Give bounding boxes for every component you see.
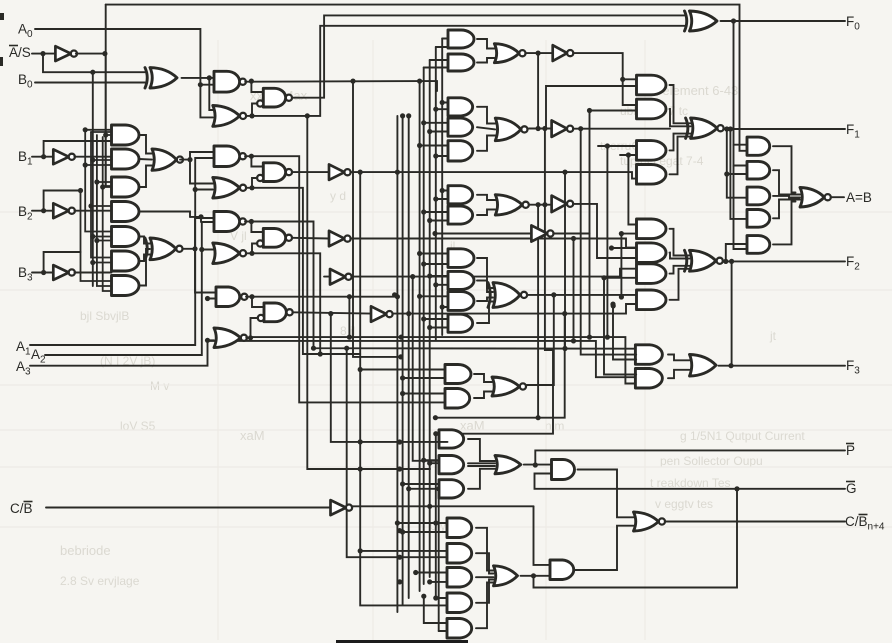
wire stair4 down to F3b (604, 278, 636, 375)
wire nor3 long (252, 253, 320, 354)
svg-text:loV S5: loV S5 (120, 419, 156, 433)
wire AB5 b (734, 166, 748, 250)
wire B1 inv out (75, 156, 112, 158)
label F0 output (846, 14, 860, 33)
nand gate bit0 upper (214, 71, 246, 92)
wire CF to xnor (477, 258, 493, 288)
wire R2 bot input (590, 110, 637, 112)
node bus tap nor1b (406, 113, 411, 118)
buffer inverter F1 path (552, 120, 574, 136)
node feeder j4 (397, 466, 402, 471)
node x360 dot 551 (358, 548, 363, 553)
node xnor-L2 branch (192, 246, 197, 251)
nand gate bit3 upper (216, 287, 247, 307)
wire nor1 branch down (307, 116, 430, 469)
wire central vertical bus bundle (397, 39, 442, 632)
inverter top F0 path (553, 45, 574, 61)
inverter after combine2 (329, 164, 351, 180)
node F2-F3 join (729, 259, 734, 264)
wire cl and6 to xnor (139, 255, 150, 262)
node x360 top tap (358, 170, 363, 175)
and gate CB5 (447, 619, 472, 639)
wire F1 out (724, 128, 845, 130)
wire AB3 out2 (773, 196, 800, 198)
node bus tap nor1 (400, 113, 405, 118)
nand gate bit1 upper (214, 146, 246, 167)
wire xor0 out to NAND1 (209, 77, 214, 79)
wire A3 branch2 (208, 298, 217, 300)
wire G-bar out (737, 488, 845, 490)
svg-text:nim: nim (545, 419, 564, 433)
label F3 output (846, 358, 860, 377)
node nor1 out (249, 113, 254, 118)
and gate CB2 (447, 544, 472, 564)
svg-text:C/B: C/B (10, 501, 33, 516)
svg-text:2.8 Sv ervjlage: 2.8 Sv ervjlage (60, 574, 140, 588)
wire C or out (521, 575, 551, 577)
node feeder x359 a (358, 466, 363, 471)
and gate AB2 (747, 161, 770, 179)
wire c4 long out (393, 304, 637, 314)
node stair5 tap (610, 302, 615, 307)
wire P or out (524, 464, 552, 466)
nor gate bit0 lower (213, 106, 246, 127)
wire F0 down (734, 21, 748, 145)
wire combine3 out (292, 237, 329, 240)
label A2 input (31, 347, 46, 366)
inverter B2 (53, 203, 75, 218)
node invc tap (432, 231, 437, 236)
node bus dot b (397, 579, 402, 584)
node nor3 out (249, 251, 254, 256)
wire buf3 out staircase (574, 204, 637, 258)
wire B3 branch (44, 252, 81, 273)
wire combine1 out to F0 xor (292, 15, 685, 97)
wire CA to nor (477, 107, 495, 124)
wire left bus g stub2 (93, 236, 112, 238)
wire left bus g stub (93, 159, 112, 161)
wire nand1 out (245, 81, 437, 91)
label F1 output (846, 122, 860, 141)
and gate B-cluster 2 (112, 149, 139, 169)
node nand4 L1 join (395, 294, 400, 299)
xor gate bit0 (B0 xor S) (145, 68, 177, 88)
wire S-bar vertical drop left (105, 5, 107, 186)
node x613 dot (611, 303, 616, 308)
wire R7 fork (670, 266, 690, 274)
scan artifact bottom edge (336, 640, 468, 643)
wire G1 bottom in (535, 474, 738, 489)
wire stair3 (581, 129, 637, 355)
wire A2 branch2 (202, 249, 214, 251)
node buf2 j (578, 126, 583, 131)
node left bus d (94, 179, 99, 184)
label B3 input (18, 265, 33, 284)
wire left bus b top (85, 129, 111, 131)
wire B2 branch (44, 191, 81, 211)
wire bus top bend2 (436, 46, 448, 48)
wire c3 long out (351, 239, 637, 248)
nor gate A=B output (800, 188, 831, 208)
wire invc in (435, 233, 531, 235)
node nor2 d1 (536, 126, 541, 131)
nand gate bit0 combine with input bubble (257, 88, 292, 107)
node stair2 join (571, 338, 576, 343)
svg-text:A=B: A=B (846, 190, 872, 205)
wire AB2 out (773, 170, 800, 194)
node F3 j (728, 363, 733, 368)
nand gate bit3 combine (258, 303, 293, 322)
wire A/S vertical to B cluster (92, 72, 94, 286)
wire nand4 long (252, 296, 397, 298)
xnor gate combine lower (488, 283, 527, 308)
wire left bus f stub (106, 134, 112, 136)
node stair1 tap (562, 170, 567, 175)
node nor3 x360 join (318, 351, 323, 356)
nor gate carry output (634, 512, 666, 531)
node bus dot d (397, 439, 402, 444)
wire A3 long to F3b (208, 341, 637, 377)
wire bus stubs to center AND column with junctions (417, 100, 448, 330)
wire A0 (35, 29, 213, 117)
inverter B1 (53, 149, 75, 164)
wire P3 to or (468, 469, 495, 489)
wire feeder x353 (353, 81, 401, 357)
node nor4 dot a (347, 335, 352, 340)
nor gate F3x combine (492, 377, 526, 396)
node drop1 stub (724, 171, 729, 176)
node C or junction (531, 573, 536, 578)
node stair6 tap (605, 143, 610, 148)
svg-text:bjl SbvjlB: bjl SbvjlB (80, 309, 129, 323)
node riser tap (433, 415, 438, 420)
node bus dot a (397, 555, 402, 560)
wire inv1 stub R1 (623, 78, 637, 80)
node stair6 join (605, 335, 610, 340)
node nand4 out (249, 294, 254, 299)
node B2 junction (41, 208, 46, 213)
wire stair1 (564, 172, 566, 348)
inverter C/B-bar (331, 500, 353, 515)
nand gate bit2 upper (214, 212, 246, 232)
node left bus g2 (90, 234, 95, 239)
wire F1 drop1 (727, 129, 747, 198)
node feeder j1 (397, 528, 402, 533)
wire F3b fork (668, 370, 690, 378)
wire buf2 out (574, 128, 671, 130)
wire nor-L1 down (190, 160, 213, 184)
svg-text:y d: y d (330, 189, 346, 203)
label B2 input (18, 204, 33, 223)
wire B2 (32, 210, 53, 212)
wire C or down (534, 489, 738, 588)
wire R3 fork (670, 134, 691, 151)
wire left bus d stub (97, 181, 112, 183)
node A2 branch (199, 247, 204, 252)
wire F0 drop stub (734, 145, 748, 166)
wire nor1 out (246, 26, 684, 116)
wire left bus d (97, 135, 112, 286)
wire nor4 out (246, 318, 257, 338)
wire R7 bot input (604, 277, 637, 279)
label B0 input (18, 72, 33, 91)
label A1 input (16, 339, 31, 358)
wire c2 long out (351, 172, 637, 179)
node left bus d2 (94, 238, 99, 243)
and gate C-I (448, 314, 473, 332)
svg-text:pen Sollector Oupu: pen Sollector Oupu (660, 454, 763, 468)
wire left bus g stub3 (93, 262, 112, 264)
and gate T2 (448, 54, 474, 71)
node x538 riser join (536, 415, 541, 420)
wire nand3 long (251, 222, 636, 349)
wire stair6 (606, 146, 608, 337)
and gate B-cluster 1 (112, 125, 139, 145)
and gate G1 (552, 460, 575, 480)
wire left bus f (105, 54, 107, 186)
node B3 junction (41, 270, 46, 275)
node A1 branch (193, 187, 198, 192)
node xnor out j (619, 294, 624, 299)
node x353 top tap (350, 79, 355, 84)
node riser top (562, 311, 567, 316)
wire cl and1 to nor (139, 135, 152, 154)
wire stair8 (620, 234, 622, 295)
wire F3xa top long (360, 369, 447, 371)
wire F3a fork (668, 355, 690, 361)
label A=B output (846, 190, 872, 205)
wire CI to xnor (477, 302, 493, 324)
wire R5 bot input (621, 233, 636, 235)
node nand1 out (249, 79, 254, 84)
wire CB5 to or (476, 583, 494, 629)
node bus dot c (421, 594, 426, 599)
wire A0 to NAND1 stub (200, 84, 214, 86)
wire F2 up drop (726, 244, 747, 261)
node nor2 out (249, 185, 254, 190)
nor gate bit3 lower (214, 328, 247, 348)
wire B3 (32, 272, 53, 274)
label A-bar/S input (9, 45, 31, 60)
node left bus f1 (103, 132, 108, 137)
nor gate B-cluster upper combine (152, 149, 183, 170)
node R7 tap (601, 275, 606, 280)
wire xnor out (528, 294, 637, 296)
wire nor2 out (246, 178, 256, 188)
and gate C-E (448, 206, 473, 224)
wire nor2 long (252, 188, 360, 354)
inverter A/S (55, 46, 77, 61)
wire carry out (665, 521, 845, 523)
wire R6 top input (612, 247, 637, 249)
node L8 lower head (436, 486, 441, 491)
svg-text:jt: jt (769, 329, 777, 343)
wire A-bar/S in (32, 53, 55, 55)
and gate F3b (635, 369, 662, 389)
wire B2 inv out (75, 210, 112, 212)
wire nand1 to combine (251, 81, 263, 92)
and gate T1 (448, 30, 474, 48)
and gate C-D (448, 186, 473, 204)
wire A=B out (831, 196, 844, 198)
node L7 lower head (433, 431, 438, 436)
and gate P2 (439, 456, 464, 474)
node nand2 out (249, 154, 254, 159)
node CB1 L7 dot (433, 520, 438, 525)
node F0 junction (731, 18, 736, 23)
wire CB1 L7 stub (436, 522, 448, 524)
inverter third left column (330, 269, 352, 285)
svg-text:xaM: xaM (460, 418, 485, 433)
node bus tap c2 (395, 170, 400, 175)
wire x538 down (537, 205, 539, 418)
and gate F3x-a (445, 365, 471, 384)
wire left bus a (81, 191, 112, 282)
wire P1 in2 long (331, 314, 448, 442)
and gate B-cluster 6 (112, 251, 139, 271)
wire AB5 out (773, 202, 796, 245)
node left bus b1 (83, 162, 88, 167)
and gate F3a (635, 345, 662, 365)
wire CB3 stub (416, 572, 448, 574)
wire CB4 to or (476, 580, 494, 603)
and gate R4 (637, 165, 667, 185)
wire CE to nor3 (477, 210, 495, 216)
wire AB4 out (773, 200, 800, 219)
node P3 upper dot (400, 481, 405, 486)
label F2 output (846, 254, 860, 273)
and gate C-B (448, 118, 473, 136)
wire x365 branch (348, 297, 350, 337)
wire T2 to or (477, 58, 494, 63)
wire bus stubs to bottom AND clusters with junctions (395, 375, 448, 600)
wire F3xb to nor (474, 392, 492, 399)
wire x538 vertical (537, 53, 539, 128)
wire cl and4 out (139, 212, 190, 217)
node nor3 d2 (542, 202, 547, 207)
wire stair2 (573, 239, 575, 341)
wire P1 to or (468, 439, 495, 461)
wire F3xa to nor (474, 374, 492, 382)
wire combine4 out (293, 312, 371, 313)
wire left bus d stub2 (97, 240, 112, 242)
and gate B-cluster 4 (112, 202, 139, 222)
and gate AB4 (747, 210, 770, 228)
wire B1 (32, 156, 53, 158)
wire CD to nor3 (477, 195, 495, 200)
node x365 tap (347, 294, 352, 299)
node CB3 stub dot (413, 570, 418, 575)
wire stair9 (628, 155, 636, 225)
node G junction (734, 486, 739, 491)
wire R8 fork (670, 269, 690, 300)
wire x360 CB2 branch (360, 550, 447, 552)
and gate C-A (448, 98, 473, 116)
or gate P combine (495, 456, 521, 474)
node nor4 dot b (399, 335, 404, 340)
wire x346 feeder (347, 348, 448, 557)
node nor2 d2 (542, 126, 547, 131)
svg-text:M v: M v (150, 379, 169, 393)
node F2 j1 (723, 259, 728, 264)
wire P-bar out (535, 450, 845, 465)
wire F3x out (527, 295, 554, 385)
node nand1 bus junction (417, 79, 422, 84)
and gate C-H (448, 292, 474, 311)
node x353 end (398, 354, 403, 359)
node stair9 tap (626, 152, 631, 157)
wire S-bar top distribution (106, 5, 747, 151)
wire left bus b (85, 130, 111, 232)
and gate R8 (637, 290, 667, 310)
label C/B-bar input (10, 501, 33, 516)
node P junction (533, 462, 538, 467)
wire F0 out (721, 20, 846, 22)
wire cl and7 to xnor (139, 249, 150, 286)
node C/B bus junction (427, 504, 432, 509)
wire F3 down (731, 261, 733, 365)
wire bus top bend4 (424, 67, 448, 69)
svg-text:g 1/5N1 Qutput Current: g 1/5N1 Qutput Current (680, 429, 805, 443)
node left bus e (100, 184, 105, 189)
buffer inverter F2 path (552, 196, 574, 213)
wire T1 to or (477, 39, 494, 49)
wire xnor-L2 down (195, 249, 216, 293)
xor gate F0 output (685, 11, 718, 31)
wire G2 out up (575, 526, 634, 570)
wire x589 down (589, 234, 591, 338)
label P-bar output (846, 443, 855, 458)
and gate R6 (637, 243, 667, 263)
wire R1 second input long (546, 86, 637, 129)
node nor4 out (248, 335, 253, 340)
wire B0 (35, 82, 145, 84)
wire xor0 out (182, 78, 213, 110)
wire CB2 to or (476, 553, 494, 573)
node bus tap invc (410, 274, 415, 279)
node nand3 out (249, 219, 254, 224)
nand gate bit1 combine (257, 163, 292, 182)
wire nor3 to buffer (530, 204, 552, 206)
and gate CB3 (447, 568, 472, 588)
node B1 junction (41, 154, 46, 159)
svg-text:v eggtv tes: v eggtv tes (655, 497, 713, 511)
wire cl and3 to nor (139, 166, 152, 188)
node stair1 join (562, 346, 567, 351)
wire left bus c stub2 (91, 205, 112, 207)
inverter after combine3 (329, 231, 351, 247)
wire A1 branch2 (195, 189, 213, 191)
wire nand2 out j (245, 156, 263, 166)
wire or1 to inv1 (526, 52, 553, 54)
wire C/B inv out2 (352, 505, 534, 507)
and gate R2 (637, 99, 667, 119)
wire nand2 long (251, 156, 447, 402)
wire bus top bend3 (430, 59, 448, 61)
wire bus bend bottom2 (439, 630, 448, 632)
wire A/S inverter out (76, 53, 106, 55)
and gate CB4 (447, 593, 472, 613)
node nor3 d1 (536, 202, 541, 207)
wire P2 to or (468, 462, 495, 464)
xnor gate F2 output (685, 250, 723, 271)
node nand3 long join (311, 346, 316, 351)
wire B3 inv out (75, 272, 112, 274)
wire P2 to or b (468, 465, 495, 467)
wire CG to xnor (477, 281, 493, 293)
node A/S-inv out on vertical (102, 51, 107, 56)
node x360 dot 442 (358, 439, 363, 444)
